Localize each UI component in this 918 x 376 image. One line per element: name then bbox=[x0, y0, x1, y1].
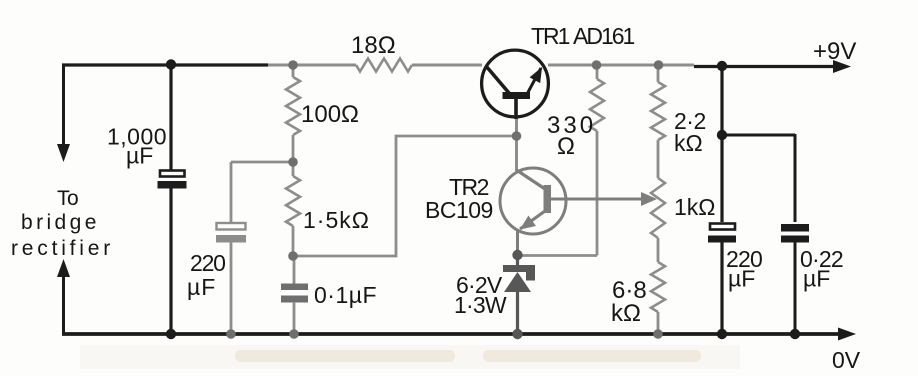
svg-text:1kΩ: 1kΩ bbox=[674, 194, 716, 220]
svg-text:100Ω: 100Ω bbox=[301, 101, 359, 128]
svg-text:18Ω: 18Ω bbox=[351, 32, 396, 59]
svg-text:0V: 0V bbox=[832, 347, 861, 371]
svg-text:kΩ: kΩ bbox=[611, 300, 641, 327]
svg-text:To: To bbox=[57, 187, 78, 210]
svg-text:µF: µF bbox=[187, 274, 216, 300]
svg-text:µF: µF bbox=[728, 266, 755, 292]
svg-text:µF: µF bbox=[126, 143, 153, 169]
svg-text:AD161: AD161 bbox=[573, 23, 635, 49]
svg-text:1·5kΩ: 1·5kΩ bbox=[303, 207, 370, 233]
svg-text:0·1µF: 0·1µF bbox=[314, 282, 377, 308]
svg-text:BC109: BC109 bbox=[425, 197, 493, 223]
svg-text:+9V: +9V bbox=[813, 38, 856, 65]
svg-text:rectifier: rectifier bbox=[11, 237, 114, 260]
svg-text:1·3W: 1·3W bbox=[454, 292, 507, 318]
svg-text:Ω: Ω bbox=[557, 133, 575, 160]
svg-text:TR1: TR1 bbox=[531, 23, 570, 49]
svg-text:kΩ: kΩ bbox=[674, 130, 703, 156]
svg-text:220: 220 bbox=[190, 250, 225, 276]
svg-text:bridge: bridge bbox=[21, 211, 100, 234]
svg-text:µF: µF bbox=[803, 266, 830, 292]
